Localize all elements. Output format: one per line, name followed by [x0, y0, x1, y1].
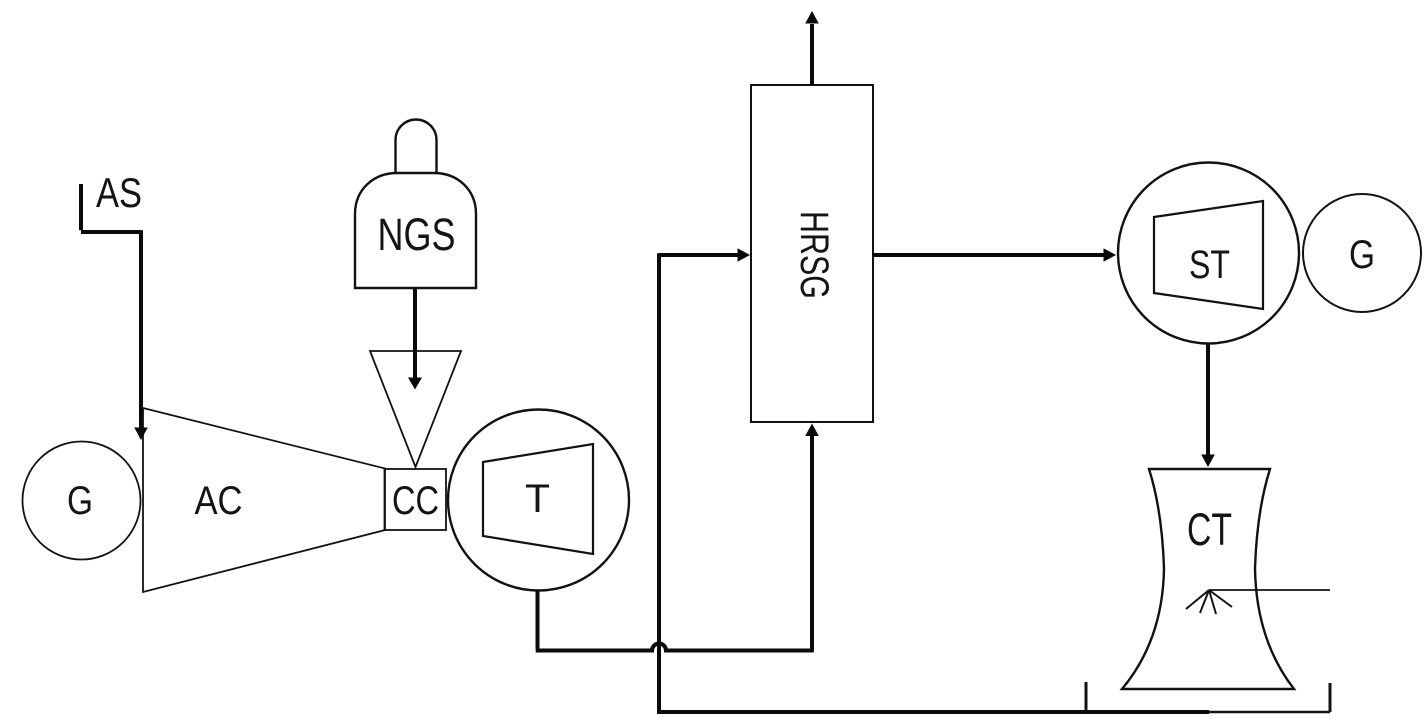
svg-text:AC: AC — [195, 479, 243, 523]
svg-text:G: G — [1349, 233, 1375, 277]
svg-text:CC: CC — [392, 479, 439, 523]
svg-text:T: T — [525, 477, 550, 521]
svg-text:ST: ST — [1189, 243, 1230, 287]
svg-text:NGS: NGS — [378, 209, 456, 260]
svg-text:CT: CT — [1187, 504, 1232, 555]
svg-text:HRSG: HRSG — [792, 211, 836, 299]
svg-text:G: G — [67, 479, 93, 523]
svg-text:AS: AS — [96, 169, 142, 216]
